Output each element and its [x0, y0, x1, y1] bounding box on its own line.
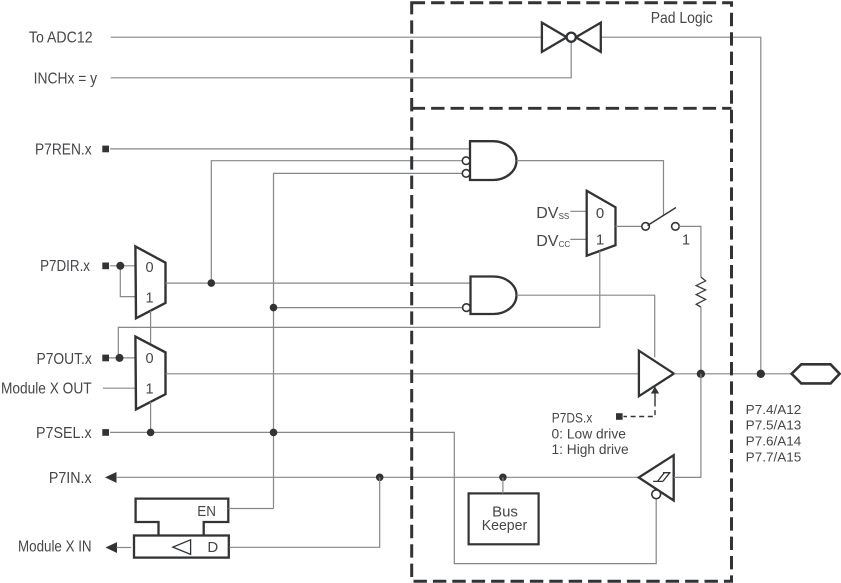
junction direction node	[208, 279, 216, 287]
wire U1 output to switch blade	[517, 161, 664, 216]
and-gate U4 (output enable)	[463, 277, 517, 315]
wire To ADC12 to transmission gate	[111, 36, 542, 38]
svg-text:DV: DV	[536, 233, 559, 250]
arrow Module X IN	[106, 542, 118, 553]
latch EN box	[136, 499, 229, 522]
wire P7IN line	[116, 476, 640, 478]
drive strength arrow	[651, 387, 659, 402]
svg-text:1: 1	[596, 232, 604, 249]
wire P7SEL.x main	[110, 432, 656, 563]
wire Module X IN	[117, 547, 132, 549]
svg-text:0: 0	[596, 205, 604, 222]
wire switch to resistor	[679, 226, 701, 277]
junction P7SEL vertical	[270, 429, 278, 437]
svg-text:P7.6/A14: P7.6/A14	[746, 434, 802, 449]
svg-text:P7SEL.x: P7SEL.x	[36, 425, 92, 442]
svg-text:P7.5/A13: P7.5/A13	[746, 418, 802, 433]
wire DVcc stub	[570, 238, 586, 240]
svg-text:P7.4/A12: P7.4/A12	[746, 402, 802, 417]
junction P7IN to bus keeper	[499, 474, 507, 482]
svg-text:P7DIR.x: P7DIR.x	[40, 258, 90, 275]
wire U4 output to driver enable	[517, 295, 655, 357]
mux U5 (P7OUT)	[135, 337, 165, 410]
wire U2 select from P7OUT	[118, 251, 600, 358]
latch clock triangle	[173, 540, 191, 555]
wire schmitt input from pad	[674, 374, 701, 478]
junction P7DIR.x	[116, 262, 124, 270]
wire P7DIR.x loop to mux U3 input 1	[120, 266, 135, 297]
input square P7DS.x	[616, 413, 623, 420]
junction P7IN to latch D	[376, 474, 384, 482]
svg-text:Pad Logic: Pad Logic	[651, 10, 713, 27]
wire U2 output to switch contact	[616, 225, 642, 227]
junction P7SEL mux select	[147, 429, 155, 437]
svg-text:Keeper: Keeper	[482, 517, 528, 534]
wire U3 select stub	[150, 311, 152, 344]
dashed box Pad Logic outer	[412, 3, 732, 581]
wire transmission gate to pad column	[601, 37, 761, 374]
wire pad node horizontal	[674, 373, 792, 375]
schmitt enable bubble	[652, 490, 661, 499]
svg-text:D: D	[207, 539, 218, 556]
svg-text:To ADC12: To ADC12	[29, 29, 93, 46]
input square P7DIR.x	[102, 263, 109, 270]
junction P7OUT.x	[116, 354, 124, 362]
junction P7SEL to U4	[270, 304, 278, 312]
input square P7SEL.x	[102, 429, 109, 436]
transmission gate	[542, 23, 601, 52]
resistor R1	[696, 277, 705, 307]
svg-text:INCHx = y: INCHx = y	[34, 70, 98, 87]
arrow P7IN.x	[105, 472, 117, 483]
schmitt hysteresis glyph	[653, 473, 671, 482]
svg-text:1: High drive: 1: High drive	[552, 442, 629, 457]
wire INCHx to transmission gate control	[111, 42, 572, 78]
wire P7REN.x to AND gate U1 top input	[110, 148, 470, 150]
wire U3 output to and-gate U4	[166, 282, 471, 284]
switch S1 contact right	[672, 223, 680, 231]
svg-text:EN: EN	[197, 503, 216, 520]
svg-text:0: 0	[145, 260, 153, 276]
wire D input from P7IN	[229, 477, 379, 547]
junction pad node resistor	[697, 370, 705, 378]
and-gate U1 (REN enable)	[462, 141, 516, 180]
switch S1 contact left	[642, 223, 650, 231]
svg-text:P7DS.x: P7DS.x	[552, 410, 593, 425]
svg-text:DV: DV	[536, 205, 559, 222]
driver triangle Q1	[639, 351, 674, 397]
wire U5 select from P7SEL	[150, 402, 152, 433]
switch S1 blade	[648, 208, 677, 226]
wire DVss stub	[570, 210, 586, 212]
mux U2 (DVss/DVcc pull select)	[587, 191, 616, 256]
schmitt trigger U6	[639, 455, 674, 500]
latch D box	[134, 536, 229, 558]
bus keeper BK1	[469, 493, 539, 544]
svg-text:SS: SS	[559, 212, 570, 221]
svg-text:0: 0	[145, 351, 153, 367]
svg-text:Module X OUT: Module X OUT	[1, 381, 92, 398]
wire direction branch to U1 middle input	[211, 161, 462, 283]
wire U5 output to driver	[166, 373, 639, 375]
svg-text:1: 1	[145, 291, 153, 307]
wire bus keeper to P7IN	[502, 477, 504, 493]
dashed wire P7DS to driver	[624, 402, 656, 417]
mux U3 (P7DIR)	[135, 246, 165, 318]
wire P7OUT.x to mux U5 input 0	[109, 357, 135, 359]
dashed divider inner	[412, 107, 732, 110]
svg-text:CC: CC	[559, 240, 571, 249]
svg-text:P7.7/A15: P7.7/A15	[746, 449, 802, 464]
wire P7DIR.x to mux U3 input 0	[110, 265, 135, 267]
wire resistor to pad node	[700, 307, 702, 374]
svg-text:P7OUT.x: P7OUT.x	[37, 351, 93, 368]
svg-text:Module X IN: Module X IN	[18, 539, 92, 556]
svg-text:1: 1	[682, 233, 690, 249]
wire P7SEL branch to U4 bottom input	[274, 307, 463, 309]
svg-text:P7IN.x: P7IN.x	[49, 470, 92, 487]
pad hexagon	[792, 364, 840, 383]
svg-text:0: Low drive: 0: Low drive	[552, 427, 627, 442]
svg-text:P7REN.x: P7REN.x	[35, 141, 92, 158]
input square P7REN.x	[102, 146, 109, 153]
wire EN input from P7SEL	[228, 508, 273, 510]
junction pad node adc	[757, 370, 765, 378]
svg-text:1: 1	[145, 382, 153, 398]
input square P7OUT.x	[102, 355, 109, 362]
wire P7SEL branch vertical to U1 bottom input	[274, 173, 463, 508]
wire Module X OUT to mux U5 input 1	[103, 387, 135, 389]
